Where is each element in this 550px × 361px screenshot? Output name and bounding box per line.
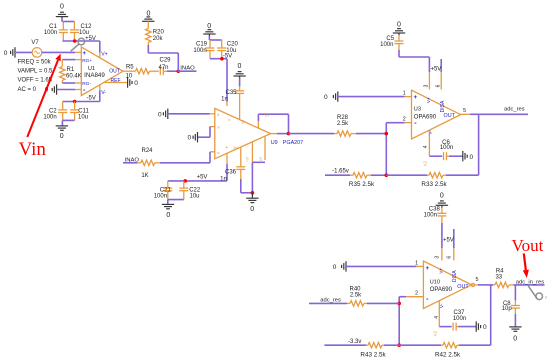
- svg-text:R1: R1: [67, 67, 75, 73]
- svg-text:0: 0: [60, 4, 64, 11]
- svg-text:V+: V+: [101, 51, 108, 57]
- svg-text:PGA207: PGA207: [283, 140, 303, 146]
- svg-text:FREQ = 50k: FREQ = 50k: [18, 60, 52, 66]
- svg-text:C11: C11: [78, 108, 89, 114]
- svg-text:C35: C35: [225, 90, 237, 96]
- svg-text:+: +: [225, 145, 228, 151]
- svg-text:2.5k: 2.5k: [350, 292, 362, 298]
- svg-text:U9: U9: [271, 140, 278, 146]
- svg-text:0: 0: [397, 21, 401, 28]
- svg-text:ni: ni: [217, 151, 220, 155]
- svg-text:47n: 47n: [158, 65, 168, 71]
- svg-text:VOFF = 1.65: VOFF = 1.65: [18, 78, 53, 84]
- svg-text:8: 8: [217, 113, 219, 117]
- svg-text:0: 0: [187, 135, 191, 142]
- svg-text:0: 0: [4, 50, 8, 57]
- svg-text:+5V: +5V: [430, 67, 441, 73]
- svg-text:0: 0: [513, 336, 517, 343]
- svg-text:adc_in_res: adc_in_res: [516, 279, 544, 285]
- svg-text:DISA: DISA: [452, 270, 458, 282]
- svg-text:6: 6: [435, 84, 441, 87]
- svg-text:10u: 10u: [189, 194, 199, 200]
- svg-text:100n: 100n: [424, 213, 437, 219]
- svg-text:6: 6: [446, 256, 452, 259]
- svg-text:R35 2.5k: R35 2.5k: [349, 181, 375, 188]
- svg-text:R42 2.5k: R42 2.5k: [435, 352, 461, 359]
- svg-text:V-: V-: [428, 130, 434, 135]
- svg-text:33: 33: [495, 274, 502, 280]
- svg-text:5: 5: [463, 108, 466, 114]
- svg-text:3: 3: [435, 256, 441, 259]
- svg-text:+5V: +5V: [197, 174, 208, 180]
- svg-text:ref: ref: [246, 157, 250, 161]
- svg-text:R43 2.5k: R43 2.5k: [360, 352, 386, 359]
- svg-text:1n: 1n: [221, 96, 228, 102]
- svg-text:2: 2: [403, 117, 406, 123]
- svg-text:V7: V7: [31, 40, 39, 46]
- svg-text:DG: DG: [259, 157, 263, 163]
- svg-text:+5V: +5V: [85, 36, 96, 42]
- svg-text:0: 0: [483, 324, 487, 331]
- svg-text:ni: ni: [217, 126, 220, 130]
- svg-text:OUT: OUT: [444, 113, 456, 119]
- svg-text:C20: C20: [227, 41, 239, 47]
- svg-text:RG+: RG+: [82, 58, 92, 64]
- svg-text:10: 10: [125, 74, 132, 80]
- svg-text:R5: R5: [126, 64, 134, 70]
- svg-text:-5V: -5V: [223, 54, 232, 60]
- svg-text:adc_res: adc_res: [320, 297, 341, 303]
- svg-text:60.4K: 60.4K: [66, 74, 82, 80]
- svg-text:INAO: INAO: [125, 157, 140, 163]
- svg-text:2: 2: [415, 290, 418, 296]
- svg-text:C22: C22: [189, 187, 201, 193]
- svg-text:C2: C2: [49, 108, 57, 114]
- svg-text:Vout: Vout: [512, 236, 544, 255]
- svg-text:C21: C21: [160, 187, 172, 193]
- svg-text:R24: R24: [141, 148, 153, 154]
- svg-text:A2: A2: [432, 330, 437, 336]
- svg-text:C19: C19: [196, 41, 208, 47]
- svg-text:100n: 100n: [43, 115, 56, 121]
- svg-text:Vin: Vin: [19, 139, 47, 160]
- svg-text:R33 2.5k: R33 2.5k: [421, 181, 447, 188]
- svg-text:-1.65v: -1.65v: [332, 168, 349, 174]
- svg-text:+: +: [414, 95, 418, 101]
- svg-text:1: 1: [403, 91, 406, 97]
- svg-text:OUT: OUT: [109, 68, 120, 74]
- svg-text:OPA690: OPA690: [430, 287, 453, 293]
- svg-text:-5V: -5V: [87, 95, 96, 101]
- svg-text:DISA: DISA: [440, 100, 446, 112]
- svg-text:5: 5: [476, 277, 479, 283]
- svg-text:C29: C29: [159, 57, 171, 63]
- svg-text:0: 0: [237, 63, 241, 70]
- svg-text:0: 0: [134, 80, 138, 87]
- svg-text:V+: V+: [426, 97, 432, 103]
- svg-text:10u: 10u: [78, 115, 88, 121]
- svg-text:100n: 100n: [440, 145, 453, 151]
- svg-text:0: 0: [333, 264, 337, 271]
- svg-text:INA849: INA849: [84, 72, 105, 79]
- svg-text:-3.3v: -3.3v: [348, 339, 361, 345]
- svg-text:4: 4: [423, 145, 429, 148]
- svg-text:10p: 10p: [502, 306, 513, 312]
- svg-text:1: 1: [415, 260, 418, 266]
- svg-text:0: 0: [324, 94, 328, 101]
- svg-text:0: 0: [250, 206, 254, 213]
- svg-text:Vo: Vo: [264, 114, 268, 118]
- svg-text:+5V: +5V: [443, 238, 454, 244]
- svg-text:OPA690: OPA690: [414, 114, 437, 120]
- svg-text:1K: 1K: [141, 173, 148, 179]
- svg-text:adc_res: adc_res: [504, 107, 525, 113]
- svg-text:2w: 2w: [233, 146, 238, 150]
- svg-text:0: 0: [470, 154, 474, 161]
- svg-text:U10: U10: [430, 280, 440, 286]
- svg-text:R20: R20: [153, 29, 165, 35]
- svg-text:A2: A2: [422, 160, 427, 166]
- svg-text:+: +: [426, 266, 430, 272]
- svg-text:Vs: Vs: [241, 120, 245, 124]
- svg-text:3: 3: [424, 84, 430, 87]
- svg-text:100n: 100n: [453, 316, 466, 322]
- svg-text:C5: C5: [386, 36, 394, 42]
- svg-text:0: 0: [60, 133, 64, 140]
- svg-text:U3: U3: [414, 107, 421, 113]
- svg-text:V-: V-: [439, 303, 445, 308]
- svg-text:20k: 20k: [153, 36, 164, 42]
- svg-text:100n: 100n: [154, 194, 167, 200]
- svg-text:VAMPL = 0.5: VAMPL = 0.5: [18, 69, 54, 75]
- svg-text:C36: C36: [225, 169, 237, 175]
- svg-text:100n: 100n: [380, 42, 393, 48]
- svg-text:V+: V+: [438, 268, 444, 274]
- svg-text:0: 0: [166, 212, 170, 219]
- svg-text:AC = 0: AC = 0: [18, 87, 37, 93]
- svg-text:2.5k: 2.5k: [337, 121, 349, 127]
- svg-text:OUT: OUT: [457, 284, 469, 290]
- svg-text:100n: 100n: [193, 48, 206, 54]
- svg-text:0: 0: [158, 111, 162, 118]
- svg-text:V-: V-: [101, 90, 106, 96]
- svg-text:+: +: [82, 51, 86, 57]
- svg-text:0: 0: [207, 23, 211, 30]
- svg-text:4: 4: [434, 316, 440, 319]
- svg-text:0: 0: [440, 193, 444, 200]
- svg-text:100n: 100n: [44, 30, 57, 36]
- svg-text:INAO: INAO: [180, 65, 195, 71]
